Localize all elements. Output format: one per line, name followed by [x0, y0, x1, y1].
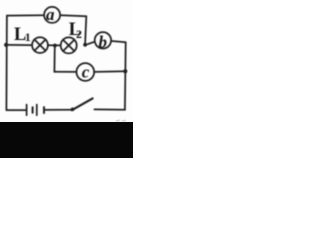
- battery cell plate short 2: [43, 107, 45, 113]
- faint scan smudges above band: [117, 120, 126, 121]
- wire ammeter branch drop: [85, 16, 86, 44]
- wire b to right rail corner: [112, 41, 126, 42]
- wire left rail vertical: [5, 16, 8, 111]
- wire between lamps: [49, 44, 60, 46]
- svg-text:1: 1: [25, 30, 31, 44]
- wire c to right rail: [95, 70, 125, 73]
- svg-text:a: a: [46, 5, 55, 24]
- voltmeter U-c circle: [76, 63, 94, 81]
- node junction dot after L2: [83, 43, 87, 47]
- black film strip band at bottom: [0, 122, 133, 158]
- wire battery to switch: [45, 109, 72, 111]
- battery cell plate short 1: [32, 107, 34, 113]
- wire node to meter b: [87, 42, 94, 45]
- lamp L2: [61, 37, 77, 53]
- wire switch to bottom right corner: [94, 108, 125, 110]
- lamp L1: [32, 37, 48, 53]
- ammeter U-a circle: [44, 7, 60, 23]
- switch S pivot dot: [71, 108, 75, 112]
- wire c branch vertical drop from node between lamps: [53, 46, 55, 72]
- battery cell plate long 2: [36, 105, 38, 116]
- node junction dot between lamps: [53, 44, 57, 48]
- wire top-left horizontal: [7, 14, 43, 16]
- wire bottom left segment: [6, 109, 26, 111]
- svg-text:b: b: [98, 33, 107, 52]
- wire left rail to lamp L1: [6, 44, 31, 46]
- wire right rail vertical: [124, 42, 127, 110]
- wire c branch horizontal to meter c: [54, 71, 75, 73]
- node on left rail junction dot: [4, 43, 8, 47]
- svg-text:2: 2: [76, 27, 82, 41]
- battery cell plate long 1: [26, 105, 28, 116]
- svg-text:c: c: [82, 62, 90, 81]
- switch S blade open: [72, 98, 93, 110]
- wire from a to top-right corner: [61, 14, 86, 17]
- node junction dot on right rail: [123, 69, 127, 73]
- voltmeter U-b circle: [95, 32, 111, 48]
